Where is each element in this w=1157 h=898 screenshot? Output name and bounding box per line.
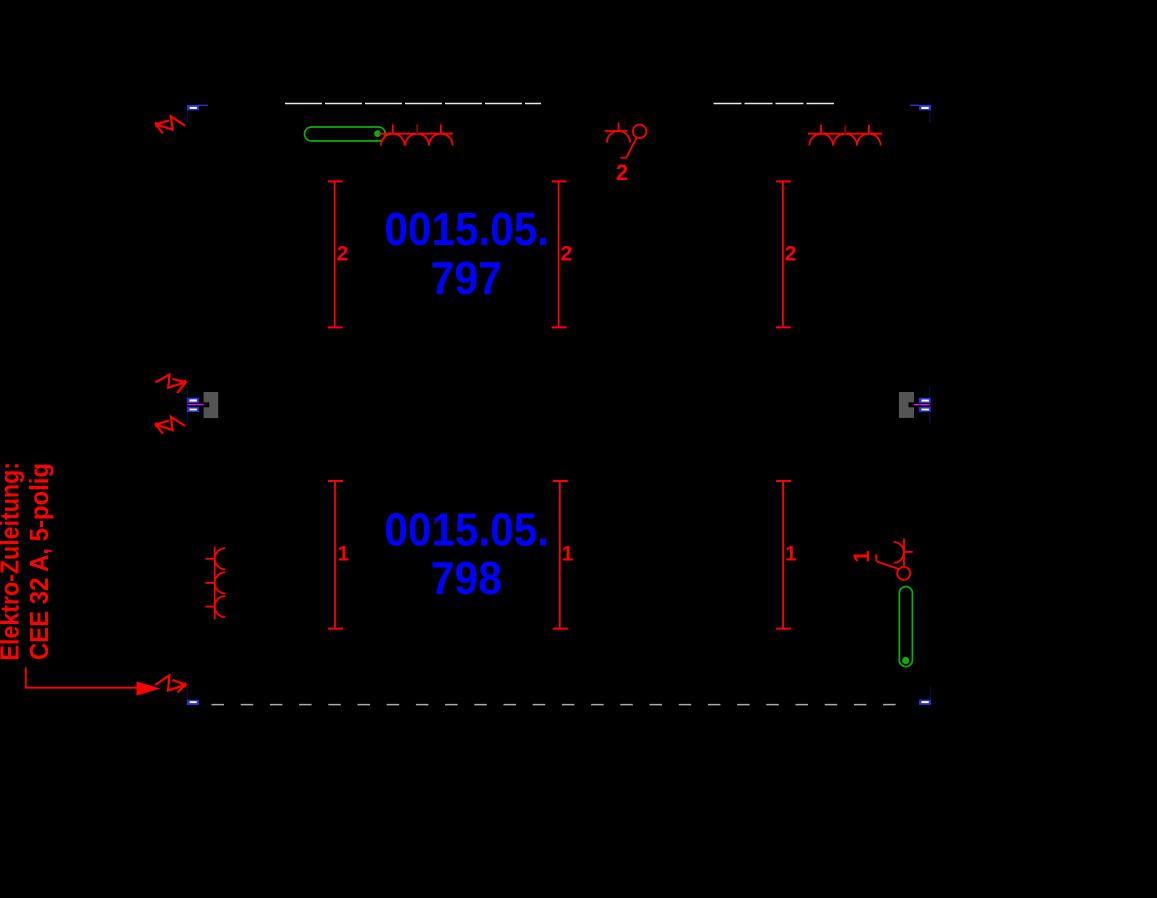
socket group top-right (3x): [808, 125, 882, 146]
socket single top-middle: [605, 122, 630, 142]
svg-text:2: 2: [561, 243, 573, 266]
svg-text:1: 1: [562, 543, 574, 566]
node marker top-left (blue dash): [187, 105, 208, 123]
svg-text:798: 798: [431, 552, 503, 604]
node marker bottom-left (blue dash): [187, 686, 199, 705]
partition connection left: navy line: [186, 386, 188, 423]
room number 0015.05.798: [384, 503, 549, 604]
dimension line row2 right: [776, 481, 791, 629]
dimension line row1 left: [328, 181, 343, 327]
feed leader arrowhead: [137, 682, 161, 696]
switch top-middle: [620, 125, 646, 158]
svg-text:797: 797: [431, 252, 503, 304]
feed zigzag mid-left lower (points left): [156, 417, 185, 434]
svg-text:1: 1: [785, 543, 797, 566]
svg-text:0015.05.: 0015.05.: [384, 203, 549, 255]
boundary dashed line bottom (grey): [212, 704, 898, 706]
feed zigzag mid-left upper (points right): [155, 375, 185, 394]
dimension line row2 left: [328, 481, 343, 629]
svg-text:1: 1: [849, 550, 874, 562]
feed zigzag bottom (points right): [155, 675, 185, 692]
partition connection left: blue bars: [187, 398, 199, 412]
dimension line row2 middle: [553, 481, 568, 629]
node marker bottom-right (blue dash): [919, 687, 931, 705]
partition connection right: navy line: [929, 386, 931, 423]
svg-text:CEE 32 A, 5-polig: CEE 32 A, 5-polig: [24, 463, 54, 660]
socket group left-wall (3x vertical): [205, 547, 225, 619]
socket single right-wall: [894, 539, 913, 567]
partition connection right: magenta link: [914, 404, 930, 406]
node marker top-right (blue dash): [910, 105, 931, 123]
partition connection right: blue bars: [919, 398, 931, 412]
svg-text:1: 1: [338, 543, 350, 566]
feed zigzag top-left (points left): [156, 116, 185, 133]
svg-text:2: 2: [337, 243, 349, 266]
dimension line row1 right: [776, 181, 791, 327]
svg-text:Elektro-Zuleitung:: Elektro-Zuleitung:: [0, 462, 24, 661]
wall line top-right (white dashed): [714, 103, 835, 105]
svg-text:2: 2: [616, 160, 628, 185]
equipment box left (grey): [204, 392, 219, 418]
equipment box right (grey): [899, 392, 914, 418]
switch bottom-right: [876, 554, 910, 580]
lamp horizontal (green fluorescent): [305, 127, 386, 141]
lamp vertical (green fluorescent): [899, 587, 912, 667]
partition connection left: magenta link: [187, 404, 203, 406]
room number 0015.05.797: [384, 203, 549, 304]
feed leader line: [26, 667, 137, 688]
svg-text:0015.05.: 0015.05.: [384, 503, 549, 555]
wall line top-left (white dashed): [285, 103, 541, 105]
dimension line row1 middle: [552, 181, 567, 327]
svg-text:2: 2: [785, 243, 797, 266]
socket group top-left (3x): [379, 125, 453, 146]
